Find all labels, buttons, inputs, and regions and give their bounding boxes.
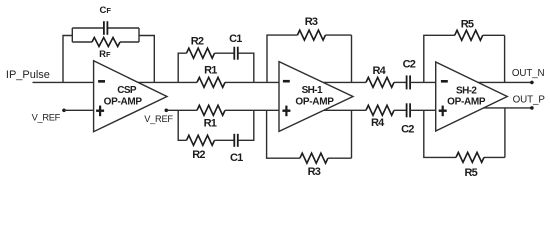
svg-text:OUT_N: OUT_N <box>512 68 545 79</box>
wire: V_REF to CSP non-inverting input <box>64 109 94 111</box>
label C1 (bottom) <box>230 152 243 164</box>
resistor R4 (bottom) <box>366 105 394 115</box>
svg-text:OP-AMP: OP-AMP <box>447 96 486 107</box>
svg-text:R4: R4 <box>372 65 386 77</box>
label C2 (bottom) <box>401 124 414 136</box>
node V_REF terminal (left) <box>32 109 66 123</box>
label R2 (top) <box>191 35 204 47</box>
resistor R5 (top) <box>455 30 483 40</box>
label CF <box>99 5 111 16</box>
svg-text:IP_Pulse: IP_Pulse <box>6 69 50 81</box>
label R3 (top) <box>305 16 318 28</box>
wire: IP_Pulse to CSP inverting input <box>33 81 94 83</box>
capacitor C2 (top) <box>407 75 411 89</box>
wire: C2 to SH-2 inverting input (top) <box>410 81 436 83</box>
svg-text:R1: R1 <box>204 64 217 76</box>
resistor R5 (bottom) <box>456 152 484 162</box>
label R4 (bottom) <box>371 117 385 129</box>
svg-text:RF: RF <box>99 49 111 60</box>
wire: R3 top feedback loop <box>267 35 352 82</box>
resistor R1 (bottom) <box>197 105 225 115</box>
wire: R3 bottom feedback loop <box>267 110 352 158</box>
wire: SH-2 output OUT_N <box>474 81 532 83</box>
svg-text:CSP: CSP <box>117 85 137 96</box>
resistor RF <box>72 38 139 47</box>
svg-text:R5: R5 <box>461 19 474 31</box>
resistor R3 (bottom) <box>300 153 328 163</box>
label R4 (top) <box>372 65 386 77</box>
label R5 (top) <box>461 19 474 31</box>
capacitor C1 (top) <box>234 47 238 60</box>
svg-text:SH-1: SH-1 <box>302 85 323 96</box>
label R3 (bottom) <box>308 166 321 178</box>
resistor R2 (bottom) <box>187 135 215 145</box>
op-amp U1 CSP <box>94 61 167 132</box>
svg-text:R5: R5 <box>464 167 477 179</box>
op-amp U3 SH-2 <box>436 62 508 131</box>
wire: R2 to C1 (bottom branch) <box>215 139 235 141</box>
wire: C2 to SH-2 non-inverting input (bottom) <box>410 109 436 111</box>
resistor R1 (top) <box>197 77 225 87</box>
node OUT_P terminal <box>513 94 546 109</box>
label C1 (top) <box>229 33 242 45</box>
label R5 (bottom) <box>464 167 477 179</box>
svg-text:R1: R1 <box>204 117 217 129</box>
wire: CSP output line to SH-1 inverting input <box>135 81 279 83</box>
wire: CF top branch <box>72 27 139 29</box>
resistor R3 (top) <box>297 30 325 40</box>
label R1 (bottom) <box>204 117 217 129</box>
wire: feedback tap up from inverting input node <box>63 36 72 83</box>
wire: top R2/C1 branch left vertical <box>178 53 186 82</box>
wire: SH-1 bottom output to R4 <box>320 109 366 111</box>
wire: feedback network left junction vertical <box>71 28 73 42</box>
svg-text:R3: R3 <box>308 166 321 178</box>
label R1 (top) <box>204 64 217 76</box>
svg-text:V_REF: V_REF <box>32 112 61 122</box>
svg-text:C2: C2 <box>403 58 416 70</box>
op-amp U2 SH-1 <box>279 62 353 132</box>
wire: feedback network right junction vertical <box>138 28 140 42</box>
svg-text:C1: C1 <box>230 152 243 164</box>
svg-text:R2: R2 <box>191 35 204 47</box>
svg-text:R2: R2 <box>192 149 205 161</box>
capacitor CF <box>104 21 108 35</box>
wire: V_REF node to SH-1 non-inverting input <box>165 109 279 113</box>
wire: R5 bottom feedback loop <box>424 108 505 157</box>
svg-text:CF: CF <box>99 5 111 16</box>
svg-text:V_REF: V_REF <box>144 114 173 124</box>
label C2 (top) <box>403 58 416 70</box>
wire: bottom C1 rejoin to main line <box>238 110 254 140</box>
svg-text:OUT_P: OUT_P <box>513 94 546 105</box>
wire: R5 top feedback loop <box>424 35 505 82</box>
node OUT_N terminal <box>512 68 545 84</box>
svg-text:SH-2: SH-2 <box>456 85 477 96</box>
wire: feedback to CSP output node <box>139 36 154 83</box>
label R2 (bottom) <box>192 149 205 161</box>
capacitor C1 (bottom) <box>234 134 238 147</box>
wire: SH-1 top output to R4 <box>320 81 366 83</box>
svg-text:OP-AMP: OP-AMP <box>104 97 143 108</box>
wire: R4 to C2 (bottom) <box>394 109 407 111</box>
node IP_Pulse input terminal label <box>6 69 50 81</box>
svg-text:C1: C1 <box>229 33 242 45</box>
wire: bottom R2/C1 branch left vertical <box>178 110 186 140</box>
wire: top C1 rejoin to main line <box>238 53 254 82</box>
wire: R2 to C1 (top branch) <box>215 52 235 54</box>
resistor R4 (top) <box>366 77 394 87</box>
label V_REF (right) <box>144 114 173 124</box>
svg-text:R3: R3 <box>305 16 318 28</box>
svg-text:C2: C2 <box>401 124 414 136</box>
capacitor C2 (bottom) <box>407 103 411 117</box>
svg-text:OP-AMP: OP-AMP <box>295 97 334 108</box>
label RF <box>99 49 111 60</box>
wire: SH-2 output OUT_P <box>480 107 532 109</box>
wire: R4 to C2 (top) <box>394 81 407 83</box>
resistor R2 (top) <box>187 48 215 58</box>
svg-text:R4: R4 <box>371 117 385 129</box>
